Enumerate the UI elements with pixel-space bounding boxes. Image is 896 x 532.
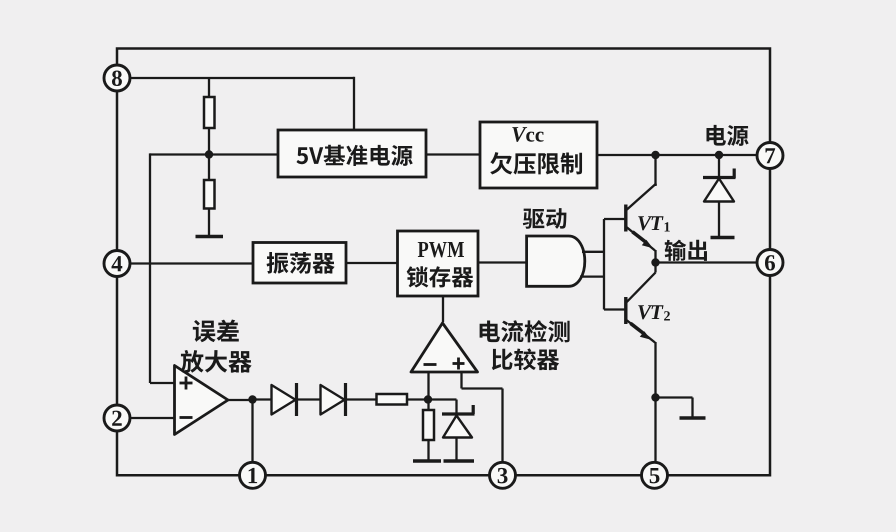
label 振荡器 (267, 252, 335, 274)
label 比较器 (492, 348, 559, 370)
resistor R3 (377, 394, 408, 405)
IC package outline border (117, 49, 770, 476)
wire pin 4 to oscillator (129, 262, 253, 264)
label 电流检测 (480, 320, 570, 342)
wire R2 to ground (208, 209, 210, 237)
junction node power rail to zener D3 (715, 151, 723, 159)
resistor R2 (204, 180, 215, 209)
label VT2 (638, 305, 652, 319)
label - input comparator (424, 363, 437, 366)
diode D2 (321, 383, 346, 416)
wire AND gate lower output stub (580, 275, 604, 277)
wire VT1 collector to power rail / emitter to output node (654, 184, 656, 187)
wire R1 to junction (208, 128, 210, 180)
label 欠压限制 (490, 152, 582, 174)
label PWM (418, 242, 464, 257)
wire VT2 emitter down to pin 5 (654, 342, 656, 462)
wire node A to diode D1 (253, 398, 273, 400)
resistor R1 (204, 97, 215, 128)
label 驱动 (drive) (523, 208, 567, 229)
wire AND gate output split to VT1/VT2 bases (604, 219, 625, 310)
wire 5V reference to Vcc UVLO block (426, 153, 480, 155)
label VT1 (638, 216, 652, 230)
junction node B (comparator inverting input) (424, 395, 432, 403)
wire node A down to pin 1 (251, 400, 253, 462)
wire divider junction down to error amp noninverting input (149, 153, 151, 383)
diode D1 (272, 383, 297, 416)
AND gate U5 driver (527, 236, 585, 286)
transistor VT2 (NPN lower) (626, 273, 656, 343)
label 电源 (power) (706, 125, 748, 146)
op-amp U6 error amplifier (175, 366, 229, 435)
wire pin 2 to error amp inverting input (129, 417, 175, 419)
label + input comparator (453, 358, 465, 370)
wire comparator noninverting input to pin 3 (462, 372, 503, 462)
wire AND gate upper output stub (582, 251, 604, 253)
wire VT2 collector to output node (654, 263, 656, 273)
wire D2 to R3 (346, 398, 377, 400)
label 5V基准电源 (296, 145, 412, 166)
wire R3 to junction node B (407, 398, 429, 400)
ground symbol at VT2 emitter (656, 398, 706, 419)
block U2 Vcc undervoltage limit (Vcc欠压限制) (480, 122, 597, 188)
label Vcc (512, 127, 527, 142)
block U4 PWM latch (PWM锁存器) (398, 231, 479, 296)
wire junction to 5V block and error amp branch (150, 153, 278, 155)
junction node power rail to VT1 collector (651, 151, 659, 159)
zener diode D3 (Vcc clamp) (703, 155, 736, 238)
wire resistor divider branch from pin8 line (208, 78, 210, 97)
comparator U7 current sense (411, 323, 478, 372)
wire D1 to D2 (297, 398, 322, 400)
wire output node to pin 6 (656, 261, 758, 263)
pin 7 (757, 143, 783, 169)
junction node A (error amp output / pin 1) (248, 395, 256, 403)
pin 8 (104, 65, 130, 91)
ground bar under R2 (196, 235, 224, 239)
wire oscillator to PWM latch (346, 262, 398, 264)
junction node output (VT1 emitter / VT2 collector) (651, 258, 659, 266)
wire pin8 to 5V reference top (129, 77, 354, 79)
junction node VT2 emitter / ground (651, 393, 659, 401)
pin 3 (490, 462, 516, 488)
junction node divider midpoint (205, 150, 213, 158)
zener diode D4 (442, 400, 475, 461)
resistor R4 (423, 400, 434, 461)
label 锁存器 (407, 266, 474, 287)
label + noninverting input (180, 377, 193, 390)
pin 2 (104, 405, 130, 431)
pin 4 (104, 251, 130, 277)
pin 6 (757, 250, 783, 276)
block U1 5V reference (5V基准电源) (278, 130, 426, 177)
wire Vcc block to pin 7 power rail (597, 154, 757, 156)
wire error amp output to node A (228, 399, 253, 401)
pin 5 (642, 462, 668, 488)
wire comparator inverting input down to node B (427, 372, 429, 400)
pin 1 (240, 462, 266, 488)
label 输出 (output) (665, 240, 707, 261)
block U3 oscillator (振荡器) (253, 243, 346, 284)
ground bar under R4 (413, 459, 441, 463)
wire PWM latch to AND driver gate (478, 261, 527, 263)
ground bar under D4 (444, 459, 475, 463)
wire node B to zener D4 branch (428, 398, 457, 400)
label - inverting input (180, 416, 193, 419)
wire power rail down to VT1 collector (654, 155, 656, 186)
label 放大器 (180, 350, 251, 373)
transistor VT1 (NPN upper) (626, 184, 656, 251)
label 误差 (193, 320, 239, 343)
wire PWM latch down to comparator (442, 296, 444, 322)
